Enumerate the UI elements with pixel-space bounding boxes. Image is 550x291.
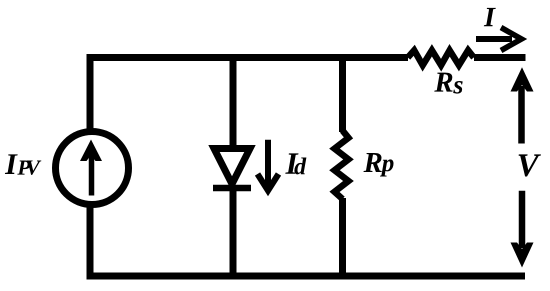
label Rs (434, 73, 462, 94)
label I (484, 8, 496, 26)
arrow V up head (511, 67, 534, 91)
arrow I shaft (476, 36, 512, 42)
current source arrow shaft (89, 150, 95, 196)
diode D triangle (214, 149, 250, 185)
label IPV (5, 154, 41, 175)
wire left branch bottom (87, 206, 94, 276)
diode cathode bar (213, 185, 251, 192)
label Rp (364, 153, 394, 177)
wire Rp branch bottom (339, 198, 346, 276)
wire top rail with left corner drop (90, 58, 408, 132)
current source IPV circle (56, 132, 129, 205)
arrow V up shaft (518, 86, 525, 144)
arrow Id shaft (265, 140, 271, 185)
wire Rp branch top (339, 58, 346, 133)
label V (519, 154, 541, 176)
wire diode branch bottom (230, 187, 237, 276)
arrow V down head (511, 243, 534, 268)
wire diode branch top (230, 58, 237, 151)
arrow I head (501, 28, 522, 51)
label Id (285, 153, 306, 174)
wire top rail right of Rs (474, 54, 526, 61)
resistor Rp zigzag (335, 131, 349, 200)
arrow Id head (258, 174, 279, 191)
arrow V down shaft (519, 191, 526, 248)
resistor Rs zigzag (408, 50, 474, 65)
current source arrow head (80, 140, 102, 162)
wire bottom rail (87, 273, 526, 280)
